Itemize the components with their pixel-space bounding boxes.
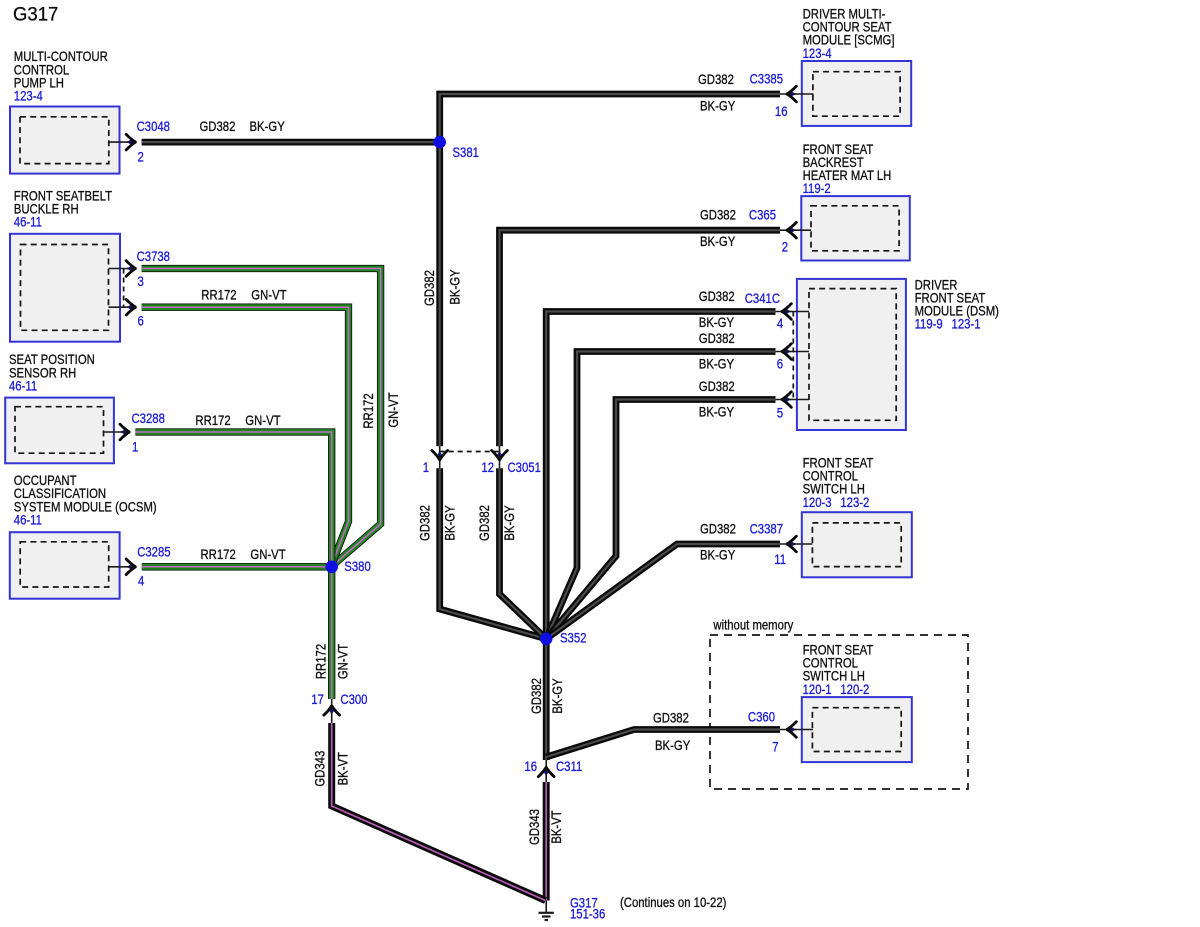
connector C3387 pin 11 <box>750 521 813 567</box>
svg-text:RR172: RR172 <box>201 547 236 562</box>
splice S352 <box>540 631 587 646</box>
wire RR172 GN-VT C3288 to S380 <box>135 413 331 567</box>
svg-text:C3738: C3738 <box>137 249 170 264</box>
svg-text:GN-VT: GN-VT <box>250 547 286 562</box>
svg-text:BK-GY: BK-GY <box>699 357 735 372</box>
component FRONT SEAT CONTROL SWITCH LH (without memory) <box>802 643 912 762</box>
svg-text:BK-GY: BK-GY <box>655 738 691 753</box>
svg-text:GD382: GD382 <box>698 72 734 87</box>
connector C341C pin 6 <box>776 344 810 372</box>
svg-text:GD382: GD382 <box>699 331 735 346</box>
svg-text:1: 1 <box>132 440 138 455</box>
svg-text:46-11: 46-11 <box>14 215 42 230</box>
svg-text:GD382: GD382 <box>653 711 689 726</box>
svg-text:GD382: GD382 <box>477 505 492 541</box>
svg-text:RR172: RR172 <box>195 413 230 428</box>
wire RR172 GN-VT C3738 pin 3 to S380 <box>142 269 402 567</box>
component FRONT SEAT CONTROL SWITCH LH <box>802 456 912 578</box>
svg-text:17: 17 <box>311 692 324 707</box>
svg-text:RR172: RR172 <box>314 644 329 679</box>
svg-text:4: 4 <box>138 574 144 589</box>
svg-text:46-11: 46-11 <box>9 379 37 394</box>
svg-text:16: 16 <box>775 104 788 119</box>
svg-text:12: 12 <box>481 460 494 475</box>
wire RR172 GN-VT S380 to C300 <box>314 567 351 699</box>
title G317 <box>13 4 58 26</box>
svg-text:BK-VT: BK-VT <box>336 752 351 786</box>
svg-text:S352: S352 <box>560 631 587 646</box>
svg-text:GD382: GD382 <box>200 119 236 134</box>
svg-text:4: 4 <box>777 316 783 331</box>
wire RR172 GN-VT C3285 to S380 <box>142 547 332 567</box>
svg-text:16: 16 <box>524 759 537 774</box>
splice S380 <box>325 559 370 574</box>
svg-text:GD343: GD343 <box>313 751 328 787</box>
svg-text:C341C: C341C <box>745 291 780 306</box>
note Continues on 10-22 <box>620 895 726 910</box>
svg-text:BK-GY: BK-GY <box>700 99 736 114</box>
splice S381 <box>433 136 479 161</box>
svg-text:46-11: 46-11 <box>14 513 42 528</box>
connector C3288 pin 1 <box>104 411 165 455</box>
svg-text:2: 2 <box>782 240 788 255</box>
inline connector C300 pin 17 <box>311 692 367 723</box>
component SEAT POSITION SENSOR RH <box>5 352 114 463</box>
svg-text:BK-GY: BK-GY <box>700 234 736 249</box>
wire GD343 BK-VT C311 to ground G317 <box>527 782 564 901</box>
svg-text:5: 5 <box>777 406 783 421</box>
svg-text:C3048: C3048 <box>137 119 170 134</box>
svg-text:120-3 123-2: 120-3 123-2 <box>803 495 870 510</box>
svg-text:BK-GY: BK-GY <box>250 119 286 134</box>
svg-text:C3385: C3385 <box>750 72 783 87</box>
svg-text:GD382: GD382 <box>422 270 437 306</box>
svg-text:C365: C365 <box>749 208 776 223</box>
svg-text:GN-VT: GN-VT <box>251 288 287 303</box>
svg-text:11: 11 <box>774 552 786 567</box>
component OCCUPANT CLASSIFICATION SYSTEM MODULE (OCSM) <box>10 473 157 598</box>
connector C3738 pin 6 <box>109 269 144 329</box>
svg-text:(Continues on 10-22): (Continues on 10-22) <box>620 895 726 910</box>
svg-text:C300: C300 <box>340 692 367 707</box>
component MULTI-CONTOUR CONTROL PUMP LH <box>10 49 120 173</box>
connector C3385 pin 16 <box>750 72 814 120</box>
connector C3285 pin 4 <box>109 544 171 588</box>
wire GD382 BK-GY C3048 to S381 <box>142 119 440 142</box>
svg-text:3: 3 <box>138 274 144 289</box>
svg-text:6: 6 <box>138 313 144 328</box>
wire RR172 GN-VT C3738 pin 6 to S380 <box>142 288 349 567</box>
svg-text:119-9 123-1: 119-9 123-1 <box>915 317 981 332</box>
wire GD382 BK-GY C341C pin 5 to S352 <box>546 379 775 639</box>
component FRONT SEAT BACKREST HEATER MAT LH <box>801 142 910 260</box>
svg-text:120-1 120-2: 120-1 120-2 <box>803 682 870 697</box>
connector C341C pin 4 <box>745 291 809 331</box>
svg-text:1: 1 <box>423 460 429 475</box>
svg-text:151-36: 151-36 <box>570 907 605 922</box>
ground G317 <box>539 896 606 922</box>
svg-text:BK-GY: BK-GY <box>699 405 735 420</box>
wire GD382 BK-GY C341C pin 6 to S352 <box>546 331 775 639</box>
svg-text:119-2: 119-2 <box>803 181 831 196</box>
svg-text:GD382: GD382 <box>700 521 736 536</box>
connector C3048 pin 2 <box>109 119 170 165</box>
svg-text:C360: C360 <box>748 709 775 724</box>
svg-text:BK-GY: BK-GY <box>699 315 735 330</box>
connector C341C pin 5 <box>776 312 810 421</box>
wire GD382 BK-GY C3051 pin 12 to S352 <box>477 468 546 639</box>
svg-text:S380: S380 <box>344 559 371 574</box>
svg-text:C3288: C3288 <box>132 411 165 426</box>
svg-text:S381: S381 <box>453 145 480 160</box>
component DRIVER FRONT SEAT MODULE (DSM) <box>797 278 999 430</box>
connector C365 pin 2 <box>749 208 811 255</box>
svg-text:C3387: C3387 <box>750 521 783 536</box>
wire GD382 BK-GY C365 to C3051 pin 12 <box>500 208 781 447</box>
inline connector C3051 pins 1 and 12 <box>423 446 541 475</box>
wire GD382 BK-GY branch to C360 <box>546 711 780 757</box>
svg-text:GD343: GD343 <box>527 809 542 845</box>
svg-text:BK-GY: BK-GY <box>443 505 458 541</box>
svg-text:C3051: C3051 <box>508 460 541 475</box>
component DRIVER MULTI-CONTOUR SEAT MODULE [SCMG] <box>802 7 911 126</box>
svg-text:C3285: C3285 <box>137 544 170 559</box>
connector C3738 pin 3 <box>109 249 171 289</box>
svg-text:GN-VT: GN-VT <box>336 644 351 680</box>
svg-text:BK-GY: BK-GY <box>502 505 517 541</box>
inline connector C311 pin 16 <box>524 759 582 782</box>
svg-text:GN-VT: GN-VT <box>245 413 281 428</box>
svg-text:GD382: GD382 <box>418 505 433 541</box>
group without memory <box>710 618 968 789</box>
component FRONT SEATBELT BUCKLE RH <box>10 189 120 342</box>
wire GD382 BK-GY C3387 to S352 <box>546 521 780 638</box>
svg-text:123-4: 123-4 <box>803 46 832 61</box>
svg-text:GD382: GD382 <box>700 208 736 223</box>
svg-text:GN-VT: GN-VT <box>386 392 401 428</box>
svg-text:RR172: RR172 <box>361 393 376 428</box>
svg-text:2: 2 <box>138 150 144 165</box>
svg-text:C311: C311 <box>556 759 582 774</box>
svg-text:GD382: GD382 <box>699 289 735 304</box>
wire GD382 BK-GY S381 to C3385 <box>440 72 780 142</box>
svg-text:123-4: 123-4 <box>14 89 43 104</box>
wire GD382 BK-GY C341C pin 4 to S352 <box>546 289 775 639</box>
connector C360 pin 7 <box>748 709 813 755</box>
svg-text:BK-VT: BK-VT <box>549 810 564 844</box>
wire GD343 BK-VT C300 to ground G317 <box>313 723 546 901</box>
svg-text:7: 7 <box>772 740 778 755</box>
svg-text:BK-GY: BK-GY <box>448 269 463 305</box>
svg-text:GD382: GD382 <box>529 678 544 714</box>
wire GD382 BK-GY S352 to C311 <box>529 639 565 760</box>
svg-text:6: 6 <box>777 357 783 372</box>
svg-text:BK-GY: BK-GY <box>700 548 736 563</box>
svg-text:without memory: without memory <box>712 618 794 633</box>
svg-text:BK-GY: BK-GY <box>550 678 565 714</box>
svg-text:RR172: RR172 <box>201 288 236 303</box>
wire GD382 BK-GY C3051 pin 1 to S352 <box>418 468 547 639</box>
svg-text:GD382: GD382 <box>699 379 735 394</box>
svg-text:G317: G317 <box>13 4 58 26</box>
wire GD382 BK-GY S381 to C3051 pin 1 <box>422 142 463 446</box>
